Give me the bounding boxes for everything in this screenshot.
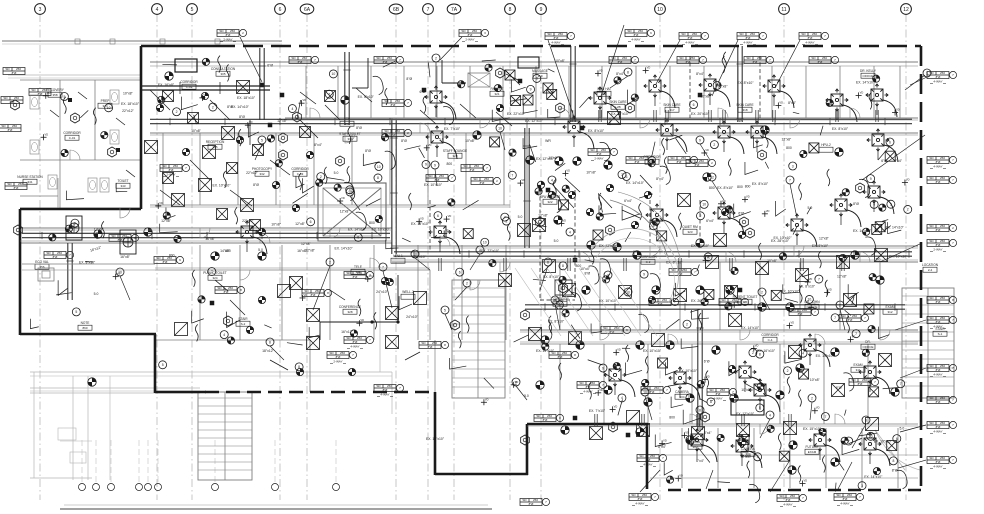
wire elbow (166, 207, 176, 218)
svg-text:317: 317 (669, 108, 674, 112)
svg-text:VD: VD (599, 388, 603, 392)
flex connector (869, 92, 872, 109)
runout (679, 387, 681, 398)
grid line 9 (540, 14, 542, 500)
door swing (668, 334, 678, 344)
svg-text:7: 7 (818, 277, 820, 281)
wire (514, 335, 529, 342)
grille (543, 83, 553, 93)
leader wire (435, 169, 437, 186)
branch duct (572, 110, 574, 122)
grille X19 (725, 286, 738, 299)
work area heavy boundary (141, 45, 215, 48)
branch duct (665, 110, 667, 122)
svg-text:SKIN CARE: SKIN CARE (736, 103, 753, 107)
flex connector (553, 179, 556, 196)
damper box V6 (652, 334, 665, 347)
svg-text:EX. 10"x10": EX. 10"x10" (371, 227, 390, 231)
diffuser D15 (604, 364, 626, 386)
vd mark (511, 384, 517, 386)
balloon 7 (379, 263, 387, 271)
leader wire (900, 368, 926, 378)
door swing (815, 334, 825, 344)
door swing (726, 252, 736, 262)
damper motor M16 (758, 303, 766, 311)
flex duct arc D7 (580, 132, 594, 149)
flex connector (679, 213, 682, 230)
svg-text:4-WAY: 4-WAY (805, 41, 814, 45)
svg-text:VD: VD (249, 120, 253, 124)
svg-text:250: 250 (940, 456, 945, 460)
damper motor (535, 188, 542, 195)
balloon (852, 330, 860, 338)
flex connector (195, 324, 198, 341)
balloon (60, 92, 68, 100)
flex duct arc D17 (751, 377, 765, 394)
fire damper FD7 (573, 416, 578, 421)
tag box T5 (679, 33, 701, 40)
svg-text:8: 8 (627, 70, 629, 74)
fire damper FD4 (210, 301, 215, 306)
wire elbow (848, 284, 858, 298)
duct connect conference (320, 321, 398, 323)
flex arc (571, 293, 582, 311)
diffuser D29 (867, 129, 889, 151)
svg-text:CORRIDOR: CORRIDOR (180, 80, 198, 84)
hex in box (555, 280, 572, 295)
balloon 10 (641, 388, 649, 396)
svg-text:EX. 14"x10": EX. 14"x10" (856, 81, 875, 85)
grille (739, 434, 749, 444)
tag box T38 (686, 160, 708, 167)
vd mark (805, 281, 811, 283)
tag box T66 (5, 183, 27, 190)
site planter lines (30, 387, 200, 389)
vd mark (762, 213, 768, 215)
svg-text:8"Ø: 8"Ø (169, 168, 175, 172)
damper motor M22 (541, 336, 549, 344)
svg-text:EX. 20"x10": EX. 20"x10" (691, 112, 710, 116)
wire elbow (842, 441, 859, 454)
wire (270, 160, 290, 175)
wire (565, 178, 580, 192)
tag box T57 (374, 57, 396, 64)
svg-text:8"x4": 8"x4" (704, 431, 713, 435)
balloon (618, 394, 626, 402)
leader wire (455, 287, 467, 300)
svg-text:8"Ø: 8"Ø (365, 149, 371, 153)
wire (533, 224, 547, 226)
damper motor (485, 64, 492, 71)
tag box T51 (419, 342, 441, 349)
canopy line left (8, 74, 140, 76)
damper motor (717, 434, 724, 441)
svg-text:12"x8": 12"x8" (301, 242, 312, 246)
svg-text:CAMERA: CAMERA (675, 390, 690, 394)
svg-text:4-WAY: 4-WAY (350, 345, 359, 349)
balloon (749, 349, 757, 357)
svg-text:8"Ø: 8"Ø (428, 345, 434, 349)
wall line bottom rooms (650, 477, 918, 479)
wire (428, 63, 430, 78)
wall line (285, 119, 918, 121)
leader wire (810, 402, 812, 420)
grille (490, 137, 500, 147)
damper motor (722, 208, 729, 215)
svg-text:8"Ø: 8"Ø (401, 139, 407, 143)
tag box T44 (849, 379, 871, 386)
balloon 8 (544, 258, 552, 266)
flex connector (63, 97, 66, 114)
leader wire (415, 258, 430, 270)
svg-text:EX. 10"x10": EX. 10"x10" (599, 299, 618, 303)
svg-text:8"Ø: 8"Ø (753, 60, 759, 64)
svg-text:2-WAY: 2-WAY (465, 38, 474, 42)
thermostat TH7 (758, 150, 767, 160)
svg-text:VD: VD (755, 343, 759, 347)
wire (215, 280, 228, 291)
vd mark (245, 124, 251, 126)
wire (744, 383, 760, 392)
flex arc (385, 151, 396, 169)
fire damper FD5 (422, 88, 427, 93)
damper motor (306, 151, 313, 158)
site terrace lines bottom-left (30, 371, 392, 373)
damper motor (841, 437, 848, 444)
wire elbow (450, 358, 467, 369)
wall line (392, 247, 918, 249)
svg-text:C-2: C-2 (646, 260, 651, 264)
balloon (105, 104, 113, 112)
balloon (867, 175, 875, 183)
svg-text:EXAM: EXAM (808, 450, 817, 454)
svg-text:8"Ø: 8"Ø (529, 502, 535, 506)
balloon 3 (862, 416, 870, 424)
svg-text:10"x4": 10"x4" (580, 267, 591, 271)
svg-text:9: 9 (540, 7, 543, 13)
grille (872, 224, 882, 234)
balloon (690, 101, 698, 109)
svg-text:7: 7 (511, 173, 513, 177)
svg-text:7: 7 (834, 316, 836, 320)
svg-text:250: 250 (862, 378, 867, 382)
thermostat TH5 (224, 316, 233, 326)
leader wire (313, 266, 330, 310)
door swing (260, 233, 270, 243)
wire (639, 194, 653, 198)
vd mark (808, 307, 814, 309)
svg-text:8"Ø: 8"Ø (677, 160, 683, 164)
svg-text:8"Ø: 8"Ø (936, 180, 942, 184)
svg-text:8: 8 (699, 408, 701, 412)
grille (300, 127, 311, 138)
grille (325, 91, 336, 102)
svg-text:8"Ø: 8"Ø (658, 302, 664, 306)
damper motor M32 (696, 239, 704, 247)
svg-text:8"Ø: 8"Ø (688, 36, 694, 40)
branch duct (788, 414, 790, 426)
balloon (889, 457, 897, 465)
grille X29 (590, 427, 603, 440)
svg-text:250: 250 (682, 268, 687, 272)
grid bubble 9 (536, 4, 547, 15)
wire elbow (681, 338, 698, 348)
balloon (375, 162, 383, 170)
balloon 2 (463, 279, 471, 287)
balloon (887, 200, 895, 208)
flex duct arc D15 (621, 380, 635, 397)
svg-text:250: 250 (395, 129, 400, 133)
door swing (650, 246, 660, 256)
damper motor M7 (835, 148, 843, 156)
grille X20 (529, 328, 542, 341)
grille (505, 70, 515, 80)
tag box T45 (609, 57, 631, 64)
svg-text:EX. 10"x10": EX. 10"x10" (679, 369, 698, 373)
curved wall B (618, 192, 680, 258)
svg-text:8"Ø: 8"Ø (892, 468, 898, 472)
wire (431, 236, 440, 238)
flex duct arc D23 (446, 237, 460, 254)
runout (246, 241, 248, 252)
svg-text:EX. 8"x10": EX. 8"x10" (717, 186, 734, 190)
runout (696, 449, 698, 460)
wire (640, 175, 652, 188)
flex duct arc D11 (663, 220, 677, 237)
svg-text:250: 250 (750, 32, 755, 36)
flex connector (759, 243, 762, 260)
site grid bubble B (93, 484, 100, 491)
leader wire (548, 40, 575, 120)
svg-text:8"Ø: 8"Ø (936, 425, 942, 429)
svg-text:VD: VD (663, 438, 667, 442)
wire (555, 163, 565, 170)
wire elbow (399, 296, 412, 310)
svg-text:LOCATION: LOCATION (922, 263, 939, 267)
svg-text:6"x4": 6"x4" (624, 199, 633, 203)
vd mark (848, 338, 854, 340)
svg-text:6: 6 (889, 140, 891, 144)
wire (300, 120, 318, 138)
damper motor M14 (696, 286, 704, 294)
svg-text:303: 303 (692, 445, 697, 449)
flex connector (799, 286, 802, 303)
site grid bubble C (108, 484, 115, 491)
tag box T22 (520, 499, 542, 506)
svg-text:8"Ø: 8"Ø (786, 498, 792, 502)
leader wire (435, 62, 437, 90)
tag box T55 (601, 327, 623, 334)
wire (700, 399, 707, 403)
door swing (794, 246, 804, 256)
svg-text:10"x8": 10"x8" (586, 171, 597, 175)
damper motor (701, 298, 708, 305)
vd mark (424, 147, 430, 149)
vd mark (701, 152, 707, 154)
damper motor (267, 135, 274, 142)
diffuser D12 (713, 202, 735, 224)
damper motor M1 (165, 72, 173, 80)
wire (622, 347, 630, 349)
leader wire (895, 320, 926, 330)
damper motor M49 (761, 126, 769, 134)
pump fixture A (66, 216, 82, 240)
svg-text:250: 250 (173, 164, 178, 168)
svg-text:9: 9 (699, 138, 701, 142)
balloon (555, 301, 563, 309)
svg-text:335: 335 (212, 145, 217, 149)
branch duct (755, 110, 757, 122)
svg-text:STAFF LOUNGE: STAFF LOUNGE (443, 149, 467, 153)
damper motor (182, 148, 189, 155)
balloon 10 (624, 288, 632, 296)
flex connector (798, 465, 801, 482)
vd mark (856, 94, 862, 96)
svg-text:EX. 12"x10": EX. 12"x10" (691, 244, 710, 248)
tag box T7 (799, 33, 821, 40)
damper motor M28 (636, 428, 644, 436)
svg-text:8"Ø: 8"Ø (635, 160, 641, 164)
svg-text:2: 2 (212, 105, 214, 109)
wire (50, 110, 59, 117)
branch duct (835, 110, 837, 122)
svg-text:L2B: L2B (615, 105, 620, 109)
flex connector (699, 313, 702, 330)
svg-text:VD: VD (679, 473, 683, 477)
svg-text:10: 10 (657, 7, 663, 13)
fire damper (518, 79, 523, 84)
damper motor M24 (644, 398, 652, 406)
damper motor (731, 267, 738, 274)
tag box T37 (668, 157, 690, 164)
fire damper (116, 148, 120, 152)
wire (496, 112, 512, 126)
site grid bubble J (333, 484, 340, 491)
damper motor (862, 349, 869, 356)
wire elbow (523, 138, 537, 149)
tag box T23 (637, 455, 659, 462)
diffuser D30 (863, 181, 885, 203)
grille X4 (145, 141, 158, 154)
damper motor (548, 191, 555, 198)
fixture (100, 178, 109, 192)
wire elbow (729, 361, 740, 375)
flex duct arc D21 (442, 102, 456, 119)
svg-text:EX. 12"x10": EX. 12"x10" (525, 119, 544, 123)
damper motor (296, 368, 303, 375)
flex duct arc D30 (880, 197, 894, 214)
grille X6 (199, 179, 212, 192)
balloon (754, 453, 762, 461)
wire (666, 319, 679, 329)
svg-text:VD: VD (159, 201, 163, 205)
damper motor (174, 235, 181, 242)
runout (876, 104, 878, 115)
flex connector (347, 166, 350, 183)
svg-text:250: 250 (822, 56, 827, 60)
flex arc (660, 166, 671, 184)
svg-text:EX. 22"x10": EX. 22"x10" (481, 249, 500, 253)
svg-text:250: 250 (230, 29, 235, 33)
damper motor M41 (831, 348, 839, 356)
damper motor (779, 253, 786, 260)
svg-text:250: 250 (690, 56, 695, 60)
flex connector (239, 129, 242, 146)
damper box V2 (278, 285, 291, 298)
svg-text:EX. 8"x10": EX. 8"x10" (752, 182, 769, 186)
tag box T3 (545, 33, 567, 40)
flex duct arc D12 (730, 218, 744, 235)
tag box T34 (426, 175, 448, 182)
svg-text:RECEPTION: RECEPTION (206, 140, 225, 144)
door swing (440, 236, 450, 246)
wire (533, 279, 546, 280)
balloon (533, 74, 541, 82)
balloon (831, 314, 839, 322)
svg-text:PREP: PREP (101, 99, 110, 103)
svg-text:VD: VD (445, 228, 449, 232)
svg-text:5.0: 5.0 (439, 137, 444, 141)
svg-text:8"Ø: 8"Ø (808, 36, 814, 40)
flex arc (897, 470, 908, 488)
svg-text:250: 250 (547, 414, 552, 418)
balloon (707, 398, 715, 406)
diffuser D7 (563, 116, 585, 138)
vd mark (731, 304, 737, 306)
grille (227, 163, 238, 174)
flex arc (443, 106, 454, 124)
svg-text:10"x8": 10"x8" (767, 259, 778, 263)
flex connector (458, 331, 461, 348)
damper motor (644, 191, 651, 198)
wire (579, 97, 589, 108)
wire (858, 433, 877, 436)
door swing (880, 330, 890, 340)
grille (188, 113, 199, 124)
damper motor M39 (851, 251, 859, 259)
grille (547, 89, 557, 99)
svg-text:5.0: 5.0 (258, 248, 263, 252)
balloon (220, 331, 228, 339)
diffuser D25 (686, 429, 708, 451)
wire elbow (599, 205, 616, 214)
svg-text:250: 250 (590, 381, 595, 385)
flex arc (650, 274, 661, 292)
vd mark (337, 200, 343, 202)
svg-text:VD: VD (303, 293, 307, 297)
branch duct (729, 258, 731, 271)
damper motor (559, 276, 566, 283)
wire (150, 90, 170, 110)
svg-text:250: 250 (558, 32, 563, 36)
runout (666, 139, 668, 150)
svg-text:VD: VD (303, 98, 307, 102)
diffuser D1 (589, 87, 611, 109)
stair S-1 (902, 288, 954, 398)
flex arc (356, 212, 367, 230)
thermostat TH22 (556, 103, 565, 113)
svg-text:2: 2 (752, 351, 754, 355)
damper motor (613, 363, 620, 370)
svg-text:10"x8": 10"x8" (548, 156, 559, 160)
svg-text:VD: VD (614, 404, 618, 408)
fire damper FD11 (738, 288, 743, 293)
damper motor (275, 160, 282, 167)
tag box T58 (289, 57, 311, 64)
leader wire (775, 40, 800, 88)
leader wire (699, 414, 701, 432)
damper motor (602, 276, 609, 283)
